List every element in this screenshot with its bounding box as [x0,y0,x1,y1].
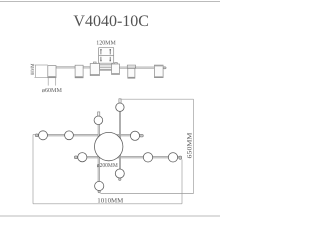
svg-text:80MM: 80MM [30,63,36,75]
svg-text:120MM: 120MM [96,41,116,47]
svg-text:1010MM: 1010MM [97,198,123,205]
svg-text:ø200MM: ø200MM [97,163,119,169]
svg-text:ø60MM: ø60MM [42,88,63,94]
svg-text:V4040-10C: V4040-10C [73,13,149,30]
svg-text:650MM: 650MM [186,132,193,158]
